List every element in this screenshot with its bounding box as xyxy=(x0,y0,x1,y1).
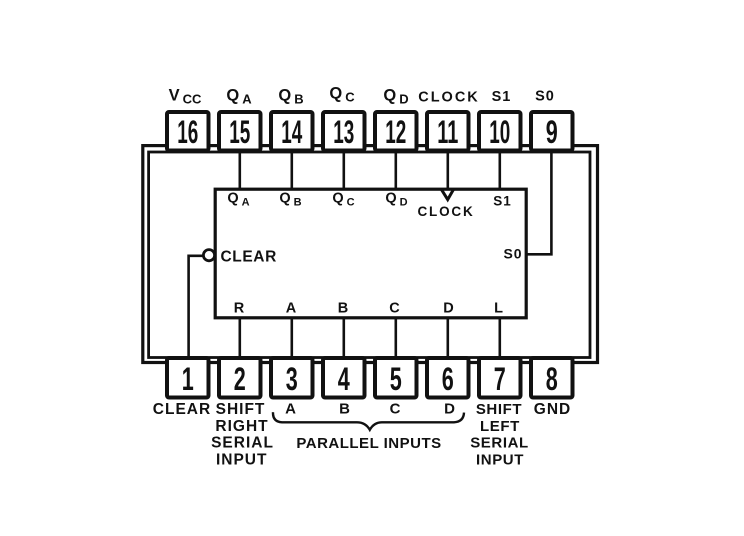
svg-text:RIGHT: RIGHT xyxy=(215,418,268,435)
svg-text:S1: S1 xyxy=(493,194,512,209)
wire pin 12 to QD xyxy=(394,150,397,190)
pin 3 xyxy=(271,358,313,398)
wire pin 3 to A xyxy=(290,317,293,359)
wire pin 14 to QB xyxy=(290,150,293,190)
svg-text:SERIAL: SERIAL xyxy=(470,435,529,452)
svg-text:3: 3 xyxy=(286,361,298,397)
pin 13 xyxy=(323,112,365,151)
brace PARALLEL INPUTS group xyxy=(273,412,464,430)
svg-text:9: 9 xyxy=(546,114,558,150)
svg-text:S0: S0 xyxy=(535,89,555,105)
pin 11 xyxy=(427,112,469,151)
pin 7 net label SHIFT LEFT SERIAL INPUT xyxy=(470,401,529,468)
wire pin 9 to S0 xyxy=(527,150,552,254)
clear inversion bubble xyxy=(203,250,214,261)
svg-text:CLEAR: CLEAR xyxy=(153,401,211,418)
svg-text:SHIFT: SHIFT xyxy=(216,401,266,418)
wire pin 10 to S1 xyxy=(498,150,501,190)
svg-text:10: 10 xyxy=(489,114,510,150)
svg-text:1: 1 xyxy=(182,361,194,397)
svg-text:11: 11 xyxy=(437,114,458,150)
IC package body outer outline xyxy=(143,146,598,363)
svg-text:15: 15 xyxy=(229,114,250,150)
pin 1 xyxy=(167,358,209,398)
svg-text:D: D xyxy=(444,401,455,418)
svg-text:CLEAR: CLEAR xyxy=(221,249,277,266)
svg-text:2: 2 xyxy=(234,361,246,397)
pin 12 xyxy=(375,112,417,151)
function block U1 shift-register core xyxy=(215,189,526,318)
svg-text:CLOCK: CLOCK xyxy=(418,204,475,219)
svg-text:8: 8 xyxy=(546,361,558,397)
svg-text:SERIAL: SERIAL xyxy=(211,435,274,452)
wire pin 7 to L xyxy=(498,317,501,359)
svg-text:16: 16 xyxy=(177,114,198,150)
svg-text:4: 4 xyxy=(338,361,350,397)
pin 4 xyxy=(323,358,365,398)
svg-text:6: 6 xyxy=(442,361,454,397)
wire pin 2 to R xyxy=(239,317,242,359)
svg-text:A: A xyxy=(285,401,296,418)
pin 16 xyxy=(167,112,209,151)
svg-text:13: 13 xyxy=(333,114,354,150)
svg-text:SHIFT: SHIFT xyxy=(476,401,522,418)
wire pin 13 to QC xyxy=(342,150,345,190)
svg-text:INPUT: INPUT xyxy=(216,451,268,468)
svg-text:S0: S0 xyxy=(503,246,522,262)
pin 2 net label SHIFT RIGHT SERIAL INPUT xyxy=(211,401,274,468)
wire pin 11 to CLOCK xyxy=(446,150,449,190)
svg-text:GND: GND xyxy=(534,401,571,418)
svg-text:C: C xyxy=(390,401,401,418)
wire pin 4 to B xyxy=(342,317,345,359)
svg-text:R: R xyxy=(234,301,245,317)
wire pin 1 to CLEAR bubble xyxy=(189,256,204,359)
pin 8 xyxy=(531,358,573,398)
svg-text:B: B xyxy=(339,401,350,418)
svg-text:PARALLEL INPUTS: PARALLEL INPUTS xyxy=(296,435,441,452)
pin 6 xyxy=(427,358,469,398)
svg-text:D: D xyxy=(443,301,453,317)
pin 14 xyxy=(271,112,313,151)
clock arrowhead xyxy=(441,189,453,199)
svg-text:5: 5 xyxy=(390,361,402,397)
pin 7 xyxy=(479,358,521,398)
svg-text:LEFT: LEFT xyxy=(480,418,520,435)
svg-text:14: 14 xyxy=(281,114,302,150)
pin 9 xyxy=(531,112,573,151)
svg-text:12: 12 xyxy=(385,114,406,150)
wire pin 5 to C xyxy=(394,317,397,359)
wire pin 15 to QA xyxy=(239,150,242,190)
svg-text:CLOCK: CLOCK xyxy=(418,90,480,106)
wire pin 6 to D xyxy=(446,317,449,359)
svg-text:L: L xyxy=(494,301,503,317)
svg-text:A: A xyxy=(286,301,297,317)
svg-text:INPUT: INPUT xyxy=(476,451,524,468)
svg-text:7: 7 xyxy=(494,361,506,397)
svg-text:B: B xyxy=(338,301,348,317)
IC package body inner outline xyxy=(149,152,590,358)
svg-text:S1: S1 xyxy=(492,89,512,105)
pin 2 xyxy=(219,358,261,398)
svg-text:C: C xyxy=(389,301,400,317)
pin 10 xyxy=(479,112,521,151)
pin 5 xyxy=(375,358,417,398)
pin 15 xyxy=(219,112,261,151)
